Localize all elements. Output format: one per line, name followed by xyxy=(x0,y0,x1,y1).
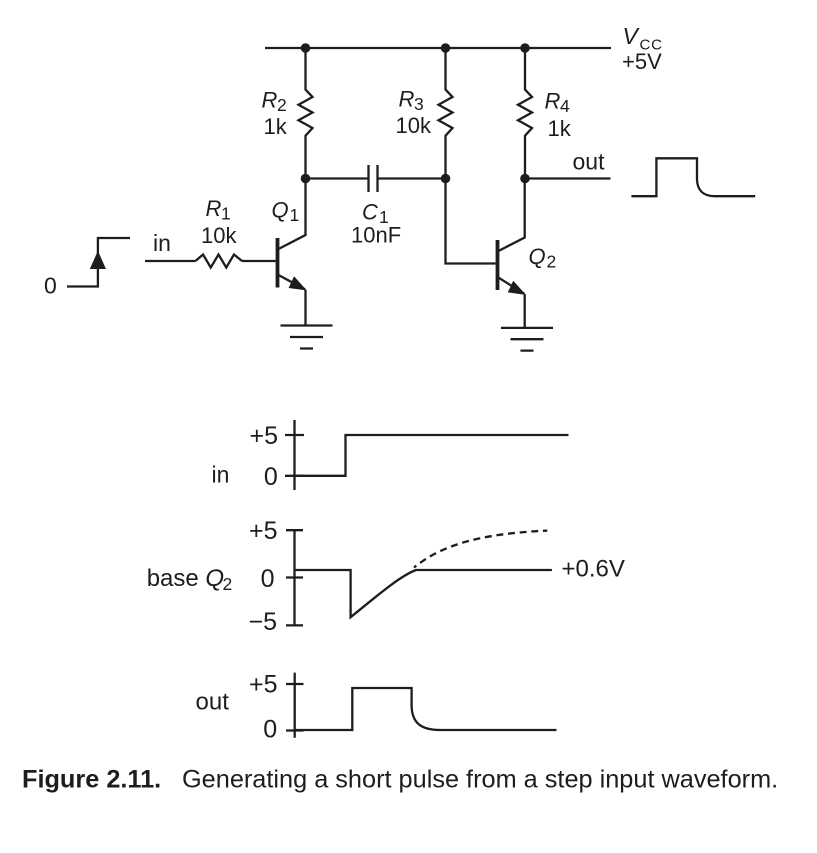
svg-text:V: V xyxy=(623,23,641,49)
wire R1 to Q1 base xyxy=(242,260,276,262)
svg-text:2: 2 xyxy=(277,95,287,115)
node rail-R4 xyxy=(520,43,530,53)
svg-text:3: 3 xyxy=(414,94,424,114)
svg-text:R: R xyxy=(206,196,222,221)
svg-text:C: C xyxy=(362,200,378,225)
wire node to C1 xyxy=(306,177,369,179)
svg-text:4: 4 xyxy=(560,96,570,116)
transistor Q2 base bar xyxy=(496,240,500,290)
waveform axis base Q2 xyxy=(293,530,295,625)
node C1-R3-Q2 xyxy=(441,174,451,184)
transistor Q2 emitter arrow xyxy=(509,282,525,295)
transistor Q2 emitter xyxy=(498,277,525,294)
svg-text:in: in xyxy=(153,230,171,256)
svg-text:Figure 2.11.: Figure 2.11. xyxy=(22,766,161,794)
svg-text:out: out xyxy=(196,689,230,716)
waveform out pulse (top right) xyxy=(631,158,755,196)
svg-text:10k: 10k xyxy=(396,113,432,138)
svg-text:+5: +5 xyxy=(249,517,278,545)
waveform axis out xyxy=(294,673,296,738)
wire out xyxy=(525,177,611,179)
svg-text:0: 0 xyxy=(264,463,278,491)
input step arrow xyxy=(91,252,106,269)
tick 0 out xyxy=(286,729,304,731)
svg-text:1k: 1k xyxy=(264,114,288,139)
svg-text:Generating a short pulse from: Generating a short pulse from a step inp… xyxy=(182,766,778,794)
svg-text:1: 1 xyxy=(221,203,231,223)
input step source xyxy=(67,238,130,287)
waveform base Q2 solid trace xyxy=(295,570,552,617)
resistor R4 xyxy=(518,48,532,179)
transistor Q1 collector xyxy=(278,179,306,250)
transistor Q1 emitter arrow xyxy=(289,277,305,290)
svg-text:10nF: 10nF xyxy=(351,223,401,248)
svg-text:+5: +5 xyxy=(249,670,278,698)
resistor R2 xyxy=(299,48,313,179)
resistor R3 xyxy=(439,48,453,179)
svg-text:+5: +5 xyxy=(249,422,278,450)
wire Q2 emitter to ground xyxy=(524,294,526,328)
svg-text:out: out xyxy=(573,149,606,175)
transistor Q2 collector xyxy=(498,179,525,252)
transistor Q1 emitter xyxy=(278,275,306,290)
waveform axis in xyxy=(293,420,295,490)
node Q1 collector xyxy=(301,174,311,184)
svg-text:in: in xyxy=(212,461,230,487)
svg-text:0: 0 xyxy=(261,565,275,593)
svg-text:0: 0 xyxy=(44,273,57,299)
transistor Q1 base bar xyxy=(276,238,280,288)
resistor R1 xyxy=(196,255,243,268)
tick +5 baseQ2 xyxy=(286,529,303,531)
tick 0 in xyxy=(285,475,304,477)
ground Q1 xyxy=(281,326,333,349)
tick 0 baseQ2 xyxy=(286,576,303,578)
waveform in trace xyxy=(295,435,569,476)
waveform out trace xyxy=(295,688,557,730)
wire node down to Q2 base xyxy=(446,179,496,264)
svg-text:Q: Q xyxy=(272,198,289,223)
svg-text:+5V: +5V xyxy=(622,49,662,74)
node rail-R3 xyxy=(441,43,451,53)
waveform base Q2 dashed recovery xyxy=(414,531,547,568)
svg-text:R: R xyxy=(399,87,415,112)
svg-text:10k: 10k xyxy=(201,223,237,248)
svg-text:base Q: base Q xyxy=(147,565,224,592)
svg-text:−5: −5 xyxy=(248,608,277,636)
wire Vcc rail xyxy=(265,47,611,49)
wire C1 to node xyxy=(378,177,446,179)
wire in xyxy=(145,260,196,262)
node rail-R2 xyxy=(301,43,311,53)
ground Q2 xyxy=(501,328,553,351)
svg-text:2: 2 xyxy=(547,252,557,272)
node out xyxy=(520,174,530,184)
svg-text:R: R xyxy=(262,88,278,113)
svg-text:2: 2 xyxy=(223,574,233,594)
tick +5 out xyxy=(286,683,304,685)
tick -5 baseQ2 xyxy=(286,624,303,626)
svg-text:R: R xyxy=(545,89,561,114)
wire Q1 emitter to ground xyxy=(304,290,306,326)
tick +5 in xyxy=(285,434,304,436)
svg-text:+0.6V: +0.6V xyxy=(562,556,625,583)
capacitor C1 xyxy=(369,165,378,192)
svg-text:1: 1 xyxy=(290,205,300,225)
svg-text:0: 0 xyxy=(263,715,277,743)
svg-text:Q: Q xyxy=(529,244,546,269)
svg-text:1k: 1k xyxy=(548,116,572,141)
